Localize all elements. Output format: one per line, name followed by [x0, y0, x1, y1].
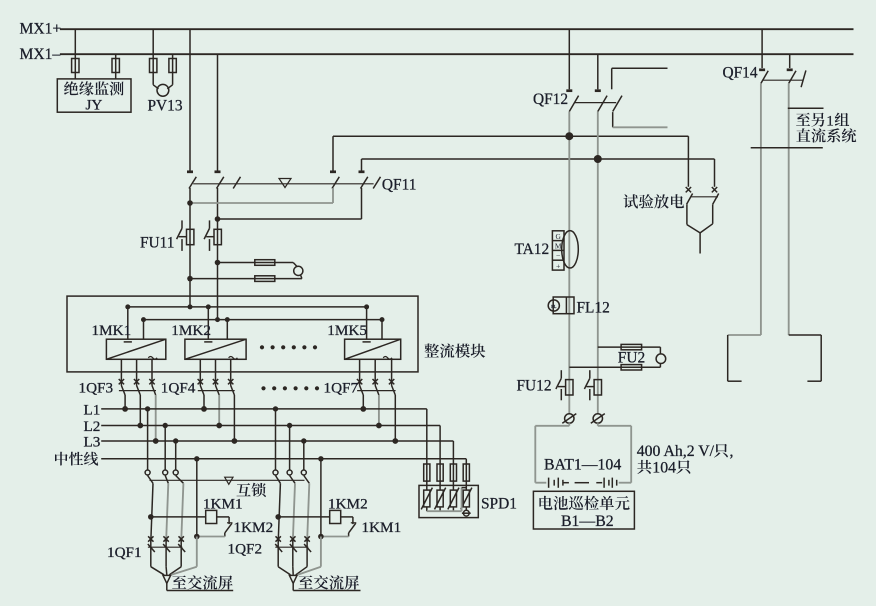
svg-text:,: ,: [730, 443, 734, 460]
wire MX1- to PV13: [172, 54, 174, 85]
junction B 1MK2: [225, 317, 230, 322]
wire MX1- to QF11 pole2: [217, 54, 219, 172]
bus L1: [101, 408, 427, 410]
junction battery negative: [594, 155, 602, 163]
breaker 1QF4: [198, 359, 235, 441]
box SPD1: [419, 485, 478, 517]
junction feeder2 coil tap: [275, 514, 281, 520]
plug contact battery negative: [591, 414, 605, 424]
wire QF11 pole2 down: [217, 188, 219, 219]
label 互锁: [237, 483, 266, 497]
svg-text:1MK2: 1MK2: [171, 322, 211, 339]
junction feeder2 neutral return: [318, 534, 324, 540]
wire SPD feed 2: [439, 426, 441, 491]
funnel to AC panel feeder1: [151, 567, 181, 575]
junction feeder2 tap: [287, 423, 292, 428]
junction feeder2 tap: [301, 438, 306, 443]
wire feeder1 phase 1: [151, 483, 153, 542]
bus L3: [101, 440, 453, 442]
neutral wire feeder1: [194, 456, 199, 461]
wire pole2-pole4 link: [218, 218, 362, 220]
varistor SPD element 3: [448, 488, 459, 510]
wire feeder1 neutral lower: [196, 537, 198, 567]
wire MX1+ to QF11 pole1: [189, 29, 191, 172]
bus MX1-: [60, 53, 854, 55]
varistor SPD element 1: [421, 488, 432, 510]
ellipsis between breakers: [261, 386, 319, 390]
fuse PV13 positive: [150, 59, 157, 73]
svg-text:MX1–: MX1–: [20, 46, 61, 63]
wire varistor bottom: [426, 507, 428, 511]
svg-text:L3: L3: [84, 434, 101, 451]
plug contact feeder1 phase 1: [145, 470, 150, 475]
svg-text:1MK5: 1MK5: [327, 322, 367, 339]
blade feeder2 phase 3: [304, 476, 310, 484]
wire QF11 pole3 up: [332, 136, 334, 172]
junction A 1MK5: [364, 304, 369, 309]
plug contact feeder2 phase 1: [273, 470, 278, 475]
wire QF11 pole4 up: [361, 159, 363, 172]
fuse FU12 positive: [556, 370, 573, 400]
fuse SPD 1: [424, 464, 430, 481]
label 直流系统: [796, 128, 856, 142]
svg-text:QF12: QF12: [533, 91, 568, 108]
wire varistor bottom: [439, 507, 441, 511]
breaker QF11: [187, 172, 381, 189]
svg-text:L1: L1: [84, 401, 101, 418]
QF12 pole3 bypass stubs: [612, 68, 668, 127]
junction battery positive: [565, 132, 573, 140]
junction pole2 link: [215, 216, 221, 222]
indicator lamp: [294, 266, 303, 275]
svg-text:1KM1: 1KM1: [203, 496, 243, 513]
neutral wire feeder2: [318, 456, 323, 461]
varistor SPD element 4: [461, 488, 472, 510]
wire SPD feed 3: [452, 441, 454, 490]
wire SPD common top link: [462, 487, 467, 489]
svg-text:FL: FL: [551, 304, 557, 309]
ellipsis between modules: [260, 345, 317, 349]
junction A feed: [188, 304, 193, 309]
plug contact feeder1 phase 3: [173, 470, 178, 475]
wire QF11 pole3 down: [332, 188, 334, 203]
wire SPD common: [427, 510, 462, 512]
breaker 1QF3: [119, 359, 156, 441]
wire feeder1 phase tap: [164, 426, 166, 471]
blade feeder1 phase 1: [148, 476, 153, 484]
svg-text:1KM1: 1KM1: [362, 519, 402, 536]
label 共104只: [637, 460, 651, 474]
contactor coil 1KM2: [278, 510, 341, 523]
interlock contact 1KM2: [217, 517, 233, 537]
junction feeder1 tap: [163, 423, 168, 428]
svg-text:FL12: FL12: [577, 299, 610, 316]
wire to voltmeter left: [153, 85, 158, 89]
fuse FU11 negative: [204, 220, 221, 251]
wire feeder2 coil return: [321, 536, 349, 538]
rectifier module 1MK1: [106, 307, 165, 359]
plug contact feeder2 phase 2: [287, 470, 292, 475]
svg-text:1QF3: 1QF3: [79, 379, 114, 396]
breaker QF12: [566, 91, 622, 112]
junction B 1MK5: [380, 317, 385, 322]
svg-text:TA12: TA12: [515, 241, 550, 258]
wire pole1-pole3 link: [190, 202, 333, 204]
wire MX1+ to QF12 pole1: [568, 29, 570, 89]
wire feeder2 phase tap: [289, 426, 291, 471]
breaker 1QF7: [357, 359, 396, 441]
breaker 1QF2: [275, 536, 311, 566]
junction indicator upper: [215, 260, 221, 266]
svg-text:PV13: PV13: [148, 98, 183, 115]
wire feeder2 phase 2: [293, 483, 295, 542]
svg-text:FU11: FU11: [140, 235, 175, 252]
junction feeder1 tap: [145, 406, 150, 411]
wire battery negative: [597, 112, 599, 414]
wire MX1+ to JY: [74, 29, 76, 79]
box battery monitor unit: [533, 491, 634, 529]
test discharge switch: [686, 136, 719, 204]
svg-text:1QF2: 1QF2: [228, 541, 263, 558]
junction A 1MK1: [125, 304, 130, 309]
wire feeder1 neutral funnel: [171, 567, 197, 575]
fuse PV13 negative: [169, 59, 176, 73]
arrow to AC panel feeder1: [163, 575, 171, 583]
wire arrow tail feeder1: [166, 583, 168, 590]
svg-text:BAT1—104: BAT1—104: [544, 456, 621, 473]
fuse JY positive: [72, 59, 79, 73]
svg-text:QF11: QF11: [382, 176, 417, 193]
svg-text:1KM2: 1KM2: [234, 519, 274, 536]
underline to AC panel feeder1: [167, 590, 233, 592]
wire feeder2 phase 1: [278, 483, 280, 542]
note to other DC system: [751, 108, 824, 148]
fuse SPD 3: [450, 464, 456, 481]
svg-text:1KM2: 1KM2: [328, 496, 368, 513]
junction pole1 link: [187, 200, 193, 206]
bus L2: [101, 425, 440, 427]
svg-text:MX1+: MX1+: [20, 21, 62, 38]
connector hook right: [789, 335, 822, 381]
svg-text:QF14: QF14: [723, 64, 758, 81]
label 至另1组: [796, 113, 824, 127]
fuse FU11 positive: [177, 220, 194, 251]
funnel to AC panel feeder2: [278, 567, 307, 575]
svg-text:−: −: [556, 252, 561, 261]
shunt transducer TA12: [552, 231, 578, 271]
breaker 1QF1: [148, 536, 185, 566]
svg-text:1QF1: 1QF1: [107, 544, 142, 561]
junction A 1MK2: [206, 304, 211, 309]
wire feeder1 phase 3: [181, 483, 183, 542]
fuse SPD 2: [437, 464, 443, 481]
box rectifier cabinet: [67, 296, 418, 372]
wire feeder1 coil return: [197, 536, 225, 538]
wire MX1+ to QF14 pole1: [761, 29, 763, 68]
indicator branch upper: [218, 260, 297, 267]
wire to voltmeter right: [167, 85, 172, 89]
wire MX1- to QF14 pole2: [789, 54, 791, 68]
plug contact feeder1 phase 2: [163, 470, 168, 475]
svg-text:SPD1: SPD1: [481, 496, 517, 513]
fuse JY negative: [112, 59, 119, 73]
bus neutral 中性线: [101, 458, 466, 460]
label 至交流屏 feeder2: [299, 575, 360, 589]
wire QF14 pole2 down: [788, 83, 790, 335]
blade feeder2 phase 2: [290, 476, 295, 484]
arrow to AC panel feeder2: [289, 575, 297, 583]
svg-text:JY: JY: [86, 97, 103, 114]
rectifier module 1MK5: [345, 307, 401, 359]
svg-text:L2: L2: [84, 418, 101, 435]
bus MX1+: [60, 28, 854, 30]
rectifier module 1MK2: [185, 307, 246, 359]
wire pole1 to rectifier bus: [189, 203, 191, 307]
discharge resistor funnel: [687, 204, 713, 253]
wire feeder1 phase tap: [175, 441, 177, 470]
svg-text:1: 1: [826, 112, 834, 129]
svg-text:104: 104: [652, 460, 676, 477]
label 整流模块: [424, 343, 485, 357]
junction indicator lower: [187, 276, 193, 282]
wire feeder2 phase 3: [307, 483, 309, 542]
svg-text:1QF4: 1QF4: [161, 379, 196, 396]
linkage interlock bar: [150, 479, 305, 481]
svg-text:G: G: [556, 232, 562, 241]
wire MX1+ to PV13: [152, 29, 154, 85]
blade feeder1 phase 2: [165, 476, 168, 484]
interlock contact 1KM1: [341, 517, 357, 537]
contactor coil 1KM1: [151, 510, 217, 523]
wire QF11 pole1 down: [189, 188, 191, 203]
wire arrow tail feeder2: [292, 583, 294, 590]
label 电池巡检单元: [539, 496, 629, 510]
svg-text:400 Ah,2 V/: 400 Ah,2 V/: [637, 443, 715, 460]
svg-text:FU12: FU12: [517, 377, 552, 394]
wire SPD feed 4: [465, 459, 467, 490]
wire DC+ distribution: [128, 306, 367, 308]
wire pole2 to rectifier bus: [217, 219, 219, 320]
indicator branch lower: [190, 275, 302, 281]
blade feeder2 phase 1: [276, 476, 281, 484]
label 试验放电: [623, 194, 684, 208]
battery BAT1-104: [535, 423, 631, 488]
junction feeder2 tap: [273, 406, 278, 411]
wire feeder2 neutral lower: [320, 537, 322, 567]
wire feeder2 phase tap: [275, 409, 277, 470]
label 绝缘监测: [64, 81, 124, 95]
wire SPD feed 1: [426, 409, 428, 490]
wire QF11 pole4 down: [361, 188, 363, 219]
wire QF14 pole1 down: [760, 83, 762, 335]
connector hook left: [728, 335, 761, 381]
wire SPD common riser: [461, 488, 463, 512]
wire SPD to earth: [465, 507, 467, 510]
wire varistor bottom: [452, 507, 454, 511]
svg-text:+: +: [556, 262, 561, 271]
shunt FL12: [548, 297, 574, 314]
wire negative link: [362, 158, 715, 160]
wire positive link: [333, 135, 688, 137]
plug contact feeder2 phase 3: [301, 470, 306, 475]
wire battery positive: [568, 112, 570, 414]
box insulation monitor JY: [57, 79, 131, 112]
interlock marker triangle: [225, 477, 233, 484]
underline to AC panel feeder2: [293, 590, 360, 592]
wire feeder1 phase tap: [147, 409, 149, 470]
junction feeder1 tap: [173, 438, 178, 443]
blade feeder1 phase 3: [176, 476, 184, 484]
label 中性线: [55, 452, 98, 466]
wire feeder2 neutral funnel: [297, 567, 321, 575]
plug contact battery positive: [562, 414, 576, 424]
wire DC- distribution: [144, 319, 383, 321]
junction B 1MK1: [141, 317, 146, 322]
svg-text:1QF7: 1QF7: [324, 379, 359, 396]
fuse SPD 4: [463, 464, 469, 481]
junction feeder1 coil tap: [148, 514, 154, 520]
varistor SPD element 2: [435, 488, 446, 510]
svg-text:FU2: FU2: [618, 349, 645, 366]
breaker QF14: [759, 70, 806, 87]
wire feeder1 phase 2: [166, 483, 168, 542]
wire feeder2 phase tap: [303, 441, 305, 470]
voltmeter PV13: [157, 84, 169, 96]
svg-text:M: M: [555, 242, 562, 251]
wire MX1- to QF12 pole2: [597, 54, 599, 89]
svg-text:B1—B2: B1—B2: [561, 513, 614, 530]
wire MX1- to JY: [115, 54, 117, 79]
junction feeder1 neutral return: [194, 534, 200, 540]
label 至交流屏 feeder1: [172, 575, 233, 589]
earth terminal SPD: [462, 510, 471, 516]
fuse branch FU2: [569, 344, 665, 370]
svg-text:1MK1: 1MK1: [92, 322, 132, 339]
junction B feed: [215, 317, 220, 322]
fuse FU12 negative: [584, 370, 601, 400]
